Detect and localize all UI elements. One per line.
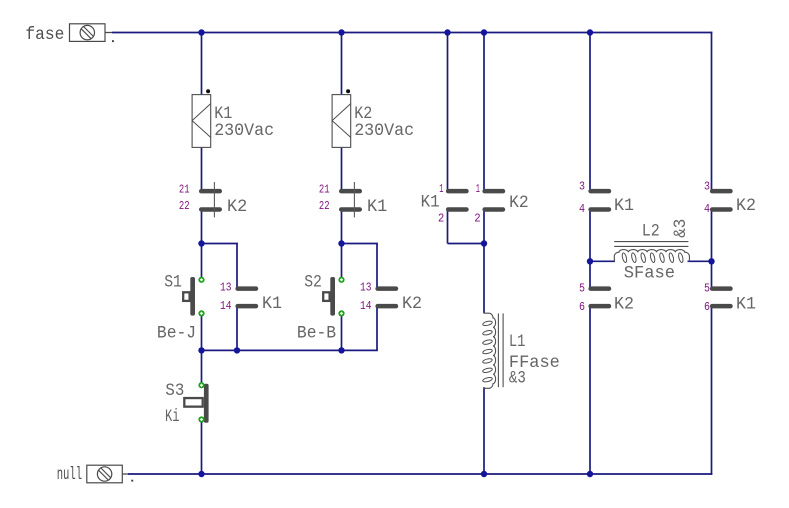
svg-text:Be-J: Be-J [157, 325, 196, 344]
svg-text:K2: K2 [509, 194, 528, 213]
svg-text:K2: K2 [736, 197, 756, 216]
svg-text:K2: K2 [614, 296, 634, 315]
svg-text:K2: K2 [402, 295, 422, 314]
svg-text:null: null [57, 466, 82, 485]
svg-text:&3: &3 [672, 219, 691, 238]
svg-text:2: 2 [438, 212, 444, 226]
svg-text:22: 22 [319, 199, 330, 213]
svg-text:L1: L1 [509, 333, 526, 352]
svg-text:Ki: Ki [165, 408, 180, 427]
svg-text:2: 2 [474, 212, 480, 226]
svg-text:L2: L2 [642, 223, 660, 242]
svg-text:5: 5 [704, 282, 710, 296]
svg-text:SFase: SFase [624, 264, 675, 283]
svg-text:230Vac: 230Vac [354, 122, 414, 141]
svg-text:21: 21 [319, 183, 330, 197]
svg-text:K1: K1 [367, 198, 387, 217]
svg-text:K1: K1 [262, 295, 282, 314]
svg-text:4: 4 [704, 202, 710, 216]
svg-text:fase: fase [25, 26, 64, 45]
svg-text:K1: K1 [421, 194, 440, 213]
svg-text:1: 1 [476, 182, 480, 196]
svg-text:3: 3 [579, 180, 585, 194]
svg-text:1: 1 [439, 182, 443, 196]
svg-text:230Vac: 230Vac [214, 122, 274, 141]
svg-text:14: 14 [360, 299, 372, 313]
svg-text:S2: S2 [304, 273, 322, 292]
svg-text:K1: K1 [614, 197, 634, 216]
svg-text:13: 13 [220, 281, 232, 295]
svg-text:21: 21 [179, 183, 190, 197]
svg-text:5: 5 [579, 282, 585, 296]
svg-text:K1: K1 [736, 296, 756, 315]
svg-text:S1: S1 [164, 273, 182, 292]
svg-text:S3: S3 [165, 382, 184, 401]
svg-text:13: 13 [360, 281, 372, 295]
svg-text:&3: &3 [509, 370, 526, 389]
svg-text:3: 3 [704, 180, 710, 194]
svg-text:22: 22 [179, 199, 190, 213]
svg-text:K2: K2 [227, 198, 247, 217]
svg-text:6: 6 [579, 300, 585, 314]
svg-text:4: 4 [579, 202, 585, 216]
svg-text:14: 14 [220, 299, 232, 313]
svg-text:Be-B: Be-B [297, 325, 336, 344]
svg-text:6: 6 [704, 300, 710, 314]
